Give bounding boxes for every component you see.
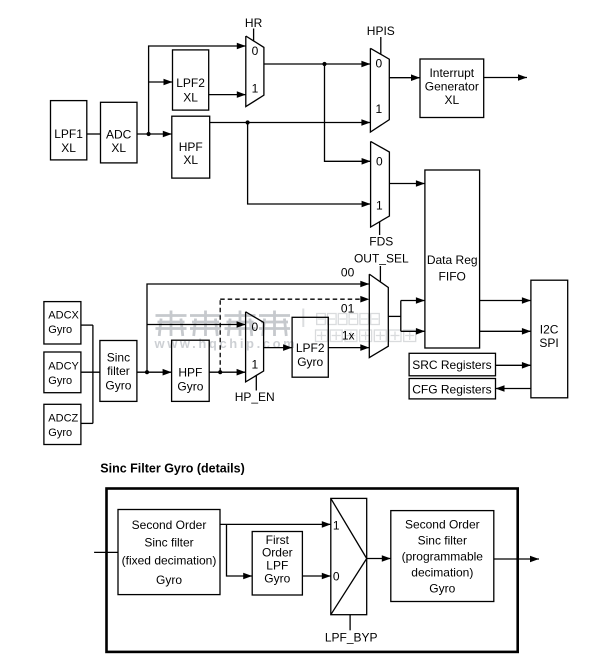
- wire sinc node branch to HP_EN mux input 0: [147, 321, 246, 328]
- svg-text:(programmable: (programmable: [402, 549, 484, 563]
- block Interrupt Generator XL: [420, 59, 484, 118]
- wire SRC Registers to I2C SPI: [496, 362, 531, 369]
- mux HR: [246, 36, 264, 107]
- svg-text:Second Order: Second Order: [132, 518, 207, 532]
- svg-text:Gyro: Gyro: [264, 572, 290, 586]
- wire ADCX output to bus: [81, 324, 93, 326]
- svg-text:LPF1: LPF1: [54, 127, 83, 141]
- wire LPF2 XL output to HR mux input 1: [209, 91, 246, 98]
- svg-text:OUT_SEL: OUT_SEL: [354, 252, 409, 266]
- wire HPF Gyro output to HP_EN mux input 1: [209, 369, 245, 376]
- block I2C SPI: [531, 280, 568, 398]
- wire branch down into First Order LPF: [227, 524, 253, 579]
- wire ADC node up to HR mux input 0: [149, 43, 246, 134]
- label FDS with select stub: [369, 222, 393, 249]
- svg-text:1: 1: [376, 199, 383, 213]
- svg-text:0: 0: [376, 57, 383, 71]
- svg-text:Generator: Generator: [425, 80, 479, 94]
- wire HPF node down to FDS mux input 1: [248, 123, 371, 208]
- svg-text:Gyro: Gyro: [48, 375, 72, 387]
- svg-text:(fixed decimation): (fixed decimation): [122, 553, 217, 567]
- wire Sinc filter output to HPF Gyro: [137, 369, 172, 376]
- block ADCY Gyro: [44, 352, 81, 393]
- block HPF Gyro: [172, 340, 210, 401]
- svg-text:XL: XL: [61, 141, 76, 155]
- svg-text:HR: HR: [245, 16, 263, 30]
- svg-text:Gyro: Gyro: [297, 355, 323, 369]
- wire ADC output to HPF XL: [137, 131, 172, 138]
- wire HP_EN mux output to LPF2 Gyro: [264, 344, 293, 351]
- svg-text:LPF: LPF: [266, 559, 288, 573]
- svg-text:filter: filter: [107, 364, 130, 378]
- svg-text:decimation): decimation): [411, 565, 473, 579]
- svg-text:Sinc: Sinc: [107, 350, 130, 364]
- wire HR node down to FDS mux input 0: [325, 64, 371, 165]
- mux HPIS: [370, 48, 389, 132]
- wire LPF1 to ADC: [87, 133, 101, 135]
- svg-text:Data Reg: Data Reg: [427, 253, 478, 267]
- wire box1 output to LPF_BYP mux input 1: [220, 521, 331, 528]
- block First Order LPF Gyro: [252, 532, 302, 596]
- block LPF2 XL: [173, 50, 209, 110]
- svg-text:Sinc filter: Sinc filter: [418, 533, 467, 547]
- wire OUT_SEL mux output split to FIFO: [388, 297, 425, 334]
- svg-text:Sinc Filter Gyro (details): Sinc Filter Gyro (details): [100, 462, 244, 476]
- svg-text:FDS: FDS: [369, 234, 393, 248]
- wire FIFO output 1 to I2C SPI: [480, 297, 531, 304]
- svg-text:ADCX: ADCX: [48, 310, 79, 322]
- svg-text:ADCY: ADCY: [48, 361, 79, 373]
- mux OUT_SEL: [369, 274, 388, 358]
- details outer box: [107, 489, 518, 652]
- wire First Order LPF output to LPF_BYP mux input 0: [302, 573, 330, 580]
- svg-text:HP_EN: HP_EN: [235, 390, 275, 404]
- block HPF XL: [172, 116, 210, 178]
- watermark separator: [302, 309, 304, 328]
- wire FDS mux output to Data Reg FIFO: [389, 180, 425, 187]
- svg-text:01: 01: [341, 302, 355, 316]
- watermark right column small characters: [316, 314, 416, 342]
- svg-text:CFG Registers: CFG Registers: [412, 383, 491, 397]
- block ADCX Gyro: [44, 302, 81, 344]
- svg-text:Gyro: Gyro: [177, 380, 203, 394]
- block ADCZ Gyro: [44, 404, 81, 444]
- svg-text:Second Order: Second Order: [405, 517, 480, 531]
- wire HPF XL output to HPIS mux input 1: [210, 119, 371, 126]
- wire branch into LPF2 XL: [149, 79, 173, 86]
- svg-text:0: 0: [376, 155, 383, 169]
- svg-text:LPF2: LPF2: [176, 76, 205, 90]
- svg-text:HPIS: HPIS: [367, 24, 395, 38]
- svg-text:I2C: I2C: [540, 322, 559, 336]
- svg-text:XL: XL: [183, 90, 198, 104]
- label HR with select stub: [245, 16, 263, 41]
- wire HR mux output to HPIS mux input 0: [264, 61, 371, 68]
- wire LPF2 Gyro output to OUT_SEL mux input 1x: [328, 344, 369, 351]
- svg-text:Interrupt: Interrupt: [429, 66, 474, 80]
- svg-text:HPF: HPF: [179, 140, 203, 154]
- svg-text:XL: XL: [111, 141, 126, 155]
- wire adc bus vertical: [92, 325, 94, 423]
- wire ADCY output / bus to Sinc filter: [81, 371, 100, 373]
- svg-text:XL: XL: [183, 153, 198, 167]
- wire details input: [94, 551, 118, 553]
- wire Interrupt Generator output: [484, 74, 527, 81]
- watermark hqchip logo characters: [156, 311, 291, 337]
- block LPF2 Gyro: [292, 317, 328, 377]
- svg-text:ADCZ: ADCZ: [48, 413, 78, 425]
- block Data Reg FIFO: [425, 170, 480, 348]
- svg-text:LPF_BYP: LPF_BYP: [325, 631, 378, 645]
- mux HP_EN: [246, 312, 264, 382]
- junction HPF gyro output node: [218, 370, 222, 374]
- svg-text:HPF: HPF: [178, 366, 202, 380]
- svg-text:Gyro: Gyro: [105, 378, 131, 392]
- block Second Order Sinc filter (fixed decimation) Gyro: [118, 510, 220, 595]
- label OUT_SEL with select stub: [354, 252, 409, 282]
- wire I2C SPI to CFG Registers: [496, 385, 531, 392]
- junction HR output node: [322, 62, 326, 66]
- svg-text:0: 0: [251, 320, 258, 334]
- label HP_EN with select stub: [235, 376, 275, 404]
- block ADC XL: [101, 102, 138, 163]
- svg-text:ADC: ADC: [106, 127, 132, 141]
- junction HPF XL output node: [246, 120, 250, 124]
- dashed wire node up and right to OUT_SEL mux input 01: [220, 296, 369, 372]
- svg-text:www.hqchip.com: www.hqchip.com: [154, 336, 298, 351]
- block CFG Registers: [409, 379, 495, 399]
- svg-text:LPF2: LPF2: [296, 341, 325, 355]
- svg-text:1: 1: [376, 102, 383, 116]
- block LPF1 XL: [51, 101, 87, 160]
- svg-text:SRC Registers: SRC Registers: [412, 358, 491, 372]
- wire sinc node up to OUT_SEL mux input 00: [147, 281, 369, 373]
- block Second Order Sinc filter (programmable decimation) Gyro: [391, 511, 494, 602]
- svg-text:FIFO: FIFO: [439, 270, 466, 284]
- svg-text:1: 1: [251, 358, 258, 372]
- block Sinc filter Gyro: [100, 341, 137, 402]
- svg-text:Gyro: Gyro: [156, 573, 182, 587]
- svg-text:Gyro: Gyro: [429, 581, 455, 595]
- svg-text:0: 0: [333, 569, 340, 583]
- wire details output: [494, 556, 539, 563]
- svg-text:Sinc filter: Sinc filter: [144, 535, 193, 549]
- svg-text:00: 00: [341, 266, 355, 280]
- junction ADC output node: [147, 132, 151, 136]
- svg-text:XL: XL: [444, 93, 459, 107]
- svg-text:1: 1: [252, 81, 259, 95]
- wire LPF_BYP mux output: [367, 555, 391, 562]
- svg-text:Gyro: Gyro: [48, 324, 72, 336]
- svg-text:First: First: [266, 533, 290, 547]
- junction sinc output node: [145, 370, 149, 374]
- svg-text:Order: Order: [262, 546, 293, 560]
- svg-text:1x: 1x: [342, 329, 355, 343]
- svg-text:1: 1: [333, 518, 340, 532]
- svg-text:SPI: SPI: [539, 336, 558, 350]
- block SRC Registers: [409, 353, 495, 376]
- wire HPIS output to Interrupt Generator: [389, 74, 420, 81]
- label LPF_BYP with select stub: [325, 615, 378, 645]
- wire FIFO output 2 to I2C SPI: [480, 328, 531, 335]
- svg-text:Gyro: Gyro: [48, 427, 72, 439]
- mux LPF_BYP: [331, 498, 367, 614]
- svg-text:0: 0: [252, 44, 259, 58]
- mux FDS: [371, 141, 390, 227]
- label HPIS with select stub: [367, 24, 395, 54]
- wire ADCZ output to bus: [81, 422, 93, 424]
